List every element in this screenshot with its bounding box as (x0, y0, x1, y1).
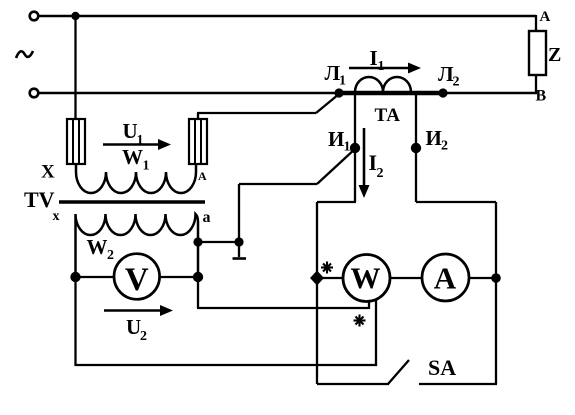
svg-text:a: a (203, 209, 211, 226)
svg-text:1: 1 (143, 159, 150, 174)
svg-text:B: B (536, 88, 547, 105)
svg-text:2: 2 (107, 248, 114, 263)
svg-text:1: 1 (378, 59, 385, 74)
svg-text:2: 2 (453, 75, 460, 90)
svg-text:x: x (53, 209, 60, 224)
svg-text:W: W (351, 262, 381, 295)
svg-text:A: A (198, 169, 207, 183)
svg-text:A: A (540, 9, 551, 25)
svg-text:1: 1 (339, 74, 346, 89)
svg-text:W: W (122, 145, 143, 169)
svg-text:И: И (328, 127, 344, 151)
svg-text:W: W (87, 235, 108, 259)
svg-text:U: U (123, 119, 138, 143)
svg-text:1: 1 (344, 140, 351, 155)
svg-text:X: X (41, 162, 55, 183)
svg-text:2: 2 (441, 139, 448, 154)
svg-text:2: 2 (377, 166, 384, 181)
svg-text:Z: Z (548, 44, 561, 66)
svg-text:A: A (434, 261, 457, 296)
svg-text:И: И (426, 126, 442, 150)
svg-text:V: V (125, 262, 149, 298)
svg-text:I: I (370, 46, 378, 70)
svg-text:U: U (126, 315, 141, 339)
svg-text:SA: SA (428, 355, 456, 380)
svg-text:2: 2 (140, 329, 147, 344)
svg-text:TV: TV (24, 187, 55, 212)
svg-text:ТА: ТА (375, 105, 401, 126)
